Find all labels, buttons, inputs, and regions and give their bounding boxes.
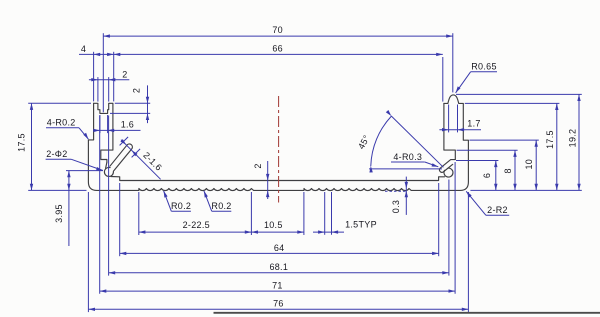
svg-text:4: 4 [81, 44, 86, 54]
svg-text:68.1: 68.1 [269, 262, 288, 272]
svg-text:17.5: 17.5 [545, 130, 555, 149]
svg-text:19.2: 19.2 [568, 129, 578, 148]
svg-text:0.3: 0.3 [391, 200, 401, 213]
svg-text:2-22.5: 2-22.5 [183, 220, 210, 230]
svg-text:10: 10 [524, 159, 534, 170]
svg-text:4-R0.3: 4-R0.3 [393, 152, 422, 162]
svg-text:4-R0.2: 4-R0.2 [47, 118, 76, 128]
svg-text:R0.2: R0.2 [211, 201, 231, 211]
svg-text:1.7: 1.7 [467, 118, 480, 128]
svg-text:76: 76 [273, 299, 284, 309]
svg-text:1.5TYP: 1.5TYP [345, 220, 377, 230]
svg-text:6: 6 [482, 173, 492, 178]
svg-text:2: 2 [122, 70, 127, 80]
svg-text:R0.2: R0.2 [171, 201, 191, 211]
svg-text:2: 2 [253, 163, 263, 168]
svg-text:71: 71 [272, 281, 283, 291]
svg-text:2-R2: 2-R2 [487, 205, 508, 215]
svg-text:2: 2 [132, 88, 142, 93]
svg-text:3.95: 3.95 [54, 204, 64, 223]
svg-text:66: 66 [272, 44, 283, 54]
svg-text:70: 70 [272, 25, 283, 35]
svg-text:64: 64 [274, 243, 285, 253]
svg-text:2-Φ2: 2-Φ2 [46, 149, 67, 159]
svg-text:8: 8 [503, 168, 513, 173]
svg-text:R0.65: R0.65 [471, 62, 497, 72]
svg-text:10.5: 10.5 [264, 220, 283, 230]
svg-text:1.6: 1.6 [121, 120, 134, 130]
svg-text:17.5: 17.5 [17, 133, 27, 152]
